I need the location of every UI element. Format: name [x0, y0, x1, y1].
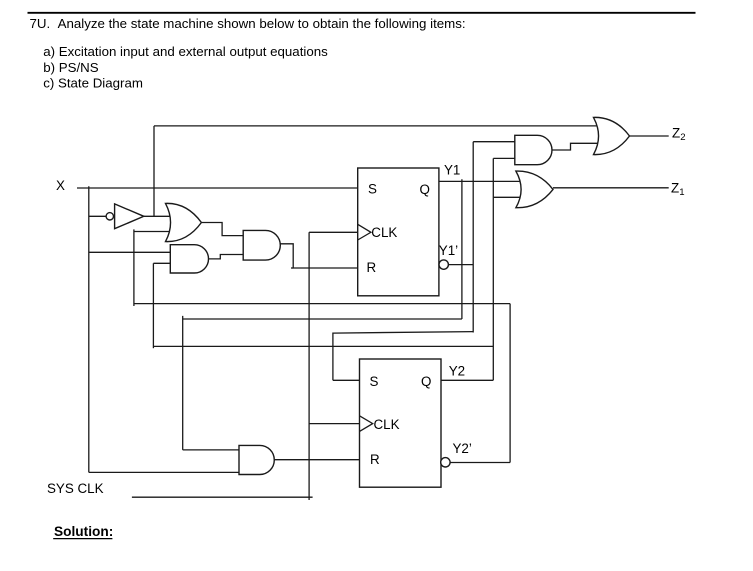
or-gate G2 — [166, 203, 202, 241]
wire net Y1bar vertical x473 — [472, 142, 474, 333]
wire S input stub of U2 — [333, 379, 360, 381]
wire CLK bus vertical — [308, 232, 310, 500]
wire net Y1 vertical x462 — [461, 179, 463, 319]
wire net Y1 horizontal y319 — [183, 318, 462, 320]
flip-flop U2 body — [360, 359, 442, 487]
wire AND G6 top input — [473, 141, 516, 143]
and-gate G4 — [243, 230, 280, 260]
wire Z1 output — [553, 187, 669, 189]
wire net Y2bar vertical x510 — [509, 304, 511, 463]
wire X bus vertical — [88, 186, 90, 472]
or-gate G7 output Z1 — [516, 171, 553, 208]
svg-text:7U. Analyze the state machine: 7U. Analyze the state machine shown belo… — [30, 16, 466, 31]
wire vertical at x134 — [133, 229, 135, 306]
wire AND G5 output to R of U2 — [274, 459, 359, 461]
wire OR G7 bottom input — [493, 196, 525, 198]
wire inverter output to OR G2 — [144, 215, 176, 217]
and-gate G3 — [170, 245, 208, 273]
wire AND G4 output jog to R of U1 — [280, 244, 357, 268]
flip-flop U2 Y2bar bubble — [441, 458, 450, 467]
wire net Y1 vertical x183 — [182, 316, 184, 450]
wire CLK stub to U2 — [309, 423, 359, 425]
svg-text:Y2: Y2 — [449, 364, 465, 379]
svg-text:a) Excitation input and extern: a) Excitation input and external output … — [43, 44, 328, 59]
svg-text:R: R — [370, 452, 380, 467]
wire OR G2 output jog to AND G4 — [201, 223, 243, 236]
wire Y1 output line to OR G7 — [439, 180, 522, 182]
svg-text:R: R — [367, 260, 377, 275]
svg-text:Y2’: Y2’ — [453, 441, 472, 456]
svg-text:Q: Q — [421, 374, 431, 389]
flip-flop U1 clock triangle — [358, 224, 371, 240]
svg-text:S: S — [368, 181, 377, 196]
svg-text:Solution:: Solution: — [54, 524, 113, 539]
wire X to G5 lower input — [89, 471, 240, 473]
wire AND G5 top input — [183, 449, 240, 451]
wire AND G3 top input from X — [89, 251, 176, 253]
wire AND G6 output jog to OR G8 — [552, 143, 598, 150]
svg-text:c) State Diagram: c) State Diagram — [43, 76, 143, 91]
wire SYS CLK horizontal — [132, 496, 313, 498]
wire OR G2 lower input — [134, 231, 176, 233]
wire net Y1bar horizontal y332 — [333, 332, 473, 334]
svg-text:SYS CLK: SYS CLK — [47, 481, 104, 496]
wire AND G3 output jog to AND G4 — [209, 255, 244, 259]
and-gate G6 — [515, 135, 552, 164]
header rule — [28, 12, 696, 14]
svg-text:b) PS/NS: b) PS/NS — [43, 60, 99, 75]
inverter G1 bubble — [106, 213, 113, 220]
flip-flop U1 body — [358, 168, 439, 296]
wire net Y2 horizontal y346 — [153, 345, 493, 347]
or-gate G8 output Z2 — [594, 117, 630, 154]
wire AND G3 bottom input — [153, 262, 176, 264]
underline of Solution heading — [53, 538, 112, 540]
inverter G1 triangle — [115, 204, 144, 229]
wire AND G6 bottom input — [493, 157, 516, 159]
wire X to inverter input — [89, 215, 106, 217]
wire node N1 vertical drop — [153, 126, 155, 216]
wire node N1 top line to Z2 OR — [154, 125, 600, 127]
wire CLK stub to U1 — [309, 231, 358, 233]
wire overhang at R1 corner — [291, 267, 293, 269]
and-gate G5 clock gate — [239, 445, 274, 474]
svg-text:CLK: CLK — [374, 417, 400, 432]
svg-text:S: S — [370, 374, 379, 389]
svg-text:Y1’: Y1’ — [439, 243, 458, 258]
wire Y2bar stub from bubble — [448, 462, 510, 464]
wire net Y2 vertical x153 — [152, 263, 154, 348]
wire net Y2bar horizontal y304 — [134, 303, 510, 305]
wire X input to S of U1 — [77, 187, 358, 189]
svg-text:X: X — [56, 178, 65, 193]
wire net Y1bar vertical x333 — [332, 333, 334, 381]
flip-flop U2 clock triangle — [360, 416, 373, 432]
wire net Y2 vertical x493 — [492, 158, 494, 380]
svg-text:CLK: CLK — [371, 225, 397, 240]
wire Y2 output stub from Q of U2 — [441, 379, 493, 381]
svg-text:Q: Q — [420, 182, 430, 197]
wire Z2 output — [630, 135, 669, 137]
svg-text:Y1: Y1 — [444, 163, 460, 178]
flip-flop U1 Y1bar bubble — [439, 260, 448, 269]
wire Y1bar stub from bubble — [448, 264, 473, 266]
